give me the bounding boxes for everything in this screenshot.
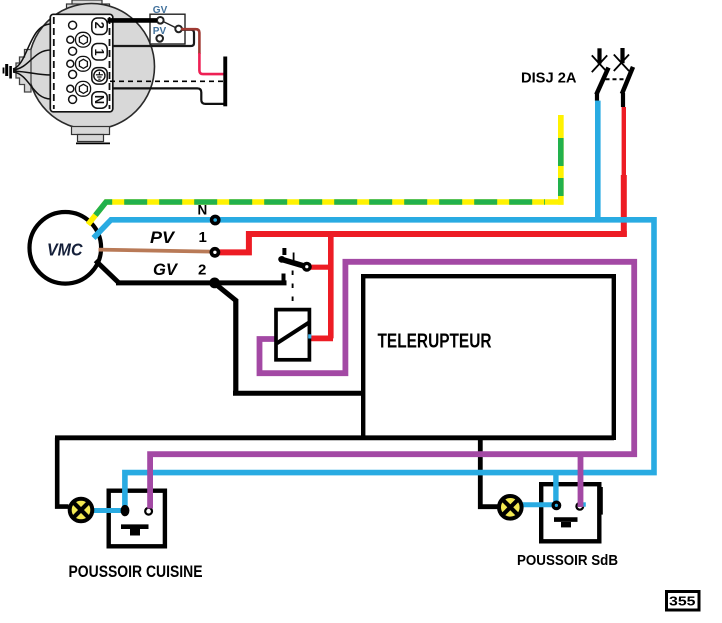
block hexagon clamps bbox=[76, 32, 91, 96]
motor internal wires bbox=[13, 24, 51, 99]
red supply wire lower bbox=[199, 53, 223, 74]
motor bottom tab bbox=[72, 127, 111, 144]
svg-text:POUSSOIR SdB: POUSSOIR SdB bbox=[517, 553, 618, 569]
svg-text:PV: PV bbox=[150, 229, 176, 247]
svg-text:GV: GV bbox=[153, 261, 179, 279]
svg-text:2: 2 bbox=[92, 22, 106, 29]
blue cuisine lamp link bbox=[94, 508, 127, 513]
earth wire vertical yellow-dominant section bbox=[558, 115, 564, 205]
GV PV selector box bbox=[150, 14, 185, 44]
switch upper contact tick bbox=[282, 248, 286, 255]
left black drop to cuisine lamp bbox=[57, 438, 68, 507]
earth wire yellow base bbox=[88, 115, 561, 225]
red link drop to coil bbox=[310, 335, 333, 341]
page number box bbox=[667, 592, 700, 611]
wall connector bar bbox=[223, 57, 227, 107]
long bottom black wire bbox=[55, 435, 614, 440]
PV return wire bbox=[113, 30, 194, 46]
red drop to coil bbox=[328, 231, 334, 338]
coil diagonal bbox=[277, 322, 309, 343]
black GV wire horizontal bbox=[116, 280, 287, 285]
blue wire breaker drop bbox=[595, 101, 601, 223]
svg-text:VMC: VMC bbox=[47, 240, 83, 260]
SdB lamp bbox=[499, 496, 522, 519]
breaker pole L bbox=[614, 48, 633, 107]
SdB left terminal node bbox=[552, 501, 562, 511]
cuisine right terminal bbox=[145, 508, 152, 515]
blue branch to SdB button bbox=[553, 470, 558, 506]
brown PV wire bbox=[99, 250, 212, 252]
VMC unit circle bbox=[30, 212, 102, 284]
thick GV wire block to selector bbox=[108, 18, 158, 23]
svg-text:2: 2 bbox=[198, 262, 206, 279]
cuisine lamp bbox=[70, 499, 93, 522]
shaft end bars bbox=[5, 64, 8, 76]
black wire terminal2 diagonal bbox=[216, 284, 237, 301]
svg-text:1: 1 bbox=[92, 49, 106, 56]
block left circles bbox=[67, 21, 77, 103]
svg-text:N: N bbox=[92, 95, 106, 104]
black GV wire diagonal from VMC bbox=[96, 261, 120, 284]
motor top tab bbox=[67, 0, 110, 11]
earth dashed axis bbox=[110, 80, 223, 82]
cyan mark at coil terminal bbox=[308, 334, 311, 338]
breaker link dashes bbox=[606, 78, 624, 80]
telerupteur enclosure box bbox=[363, 276, 614, 438]
black drop telerupteur to SdB lamp bbox=[480, 438, 498, 507]
red phase wire from terminal 1 to breaker bbox=[215, 231, 624, 252]
selector terminals bbox=[156, 17, 182, 42]
SdB box thick right edge bbox=[598, 487, 603, 515]
svg-text:N: N bbox=[198, 203, 208, 218]
blue SdB lamp link bbox=[522, 502, 557, 507]
svg-text:GV: GV bbox=[153, 5, 168, 16]
black wire horizontal to telerupteur bbox=[233, 391, 363, 396]
motor body circle bbox=[29, 4, 155, 130]
SdB push symbol block bbox=[561, 522, 571, 527]
black wire vertical to bottom bbox=[233, 299, 238, 393]
earth wire green dashes bbox=[88, 202, 545, 225]
svg-text:1: 1 bbox=[199, 229, 207, 246]
node 2 bbox=[209, 278, 220, 289]
cuisine push symbol block bbox=[130, 529, 140, 536]
switch blade bbox=[281, 259, 307, 267]
purple telerupteur return wire bbox=[150, 262, 634, 509]
red supply wire upper bbox=[181, 29, 199, 54]
blue stub at SdB right terminal bbox=[582, 502, 586, 506]
node N bbox=[210, 215, 221, 226]
svg-text:TELERUPTEUR: TELERUPTEUR bbox=[378, 330, 492, 353]
motor left shaft steps bbox=[16, 50, 31, 93]
SdB right terminal bbox=[576, 503, 583, 510]
switch lower contact tick bbox=[282, 274, 286, 285]
breaker pole N bbox=[592, 48, 609, 101]
cuisine left terminal node bbox=[121, 505, 130, 516]
svg-text:POUSSOIR CUISINE: POUSSOIR CUISINE bbox=[69, 562, 203, 581]
SdB push symbol bar bbox=[554, 517, 578, 522]
blue neutral wire main run bbox=[94, 220, 655, 508]
N motor wire bbox=[113, 88, 224, 104]
svg-text:DISJ 2A: DISJ 2A bbox=[521, 71, 577, 87]
poussoir cuisine box bbox=[109, 491, 165, 547]
poussoir SdB box bbox=[541, 484, 599, 541]
selector blade bbox=[163, 22, 175, 28]
cuisine push symbol bar bbox=[121, 524, 149, 529]
node 1 bbox=[210, 247, 221, 258]
switch pivot node bbox=[302, 262, 312, 272]
red link pivot to drop bbox=[306, 265, 331, 270]
VMC motor unit illustration bbox=[3, 0, 228, 143]
purple branch to SdB button bbox=[578, 454, 584, 507]
telerupteur coil box bbox=[276, 310, 309, 360]
svg-text:355: 355 bbox=[669, 594, 696, 609]
earth terminal symbol bbox=[94, 70, 105, 81]
terminal pills with labels bbox=[92, 18, 107, 108]
dashed mechanical link bbox=[293, 253, 295, 263]
terminal block bbox=[50, 14, 113, 112]
